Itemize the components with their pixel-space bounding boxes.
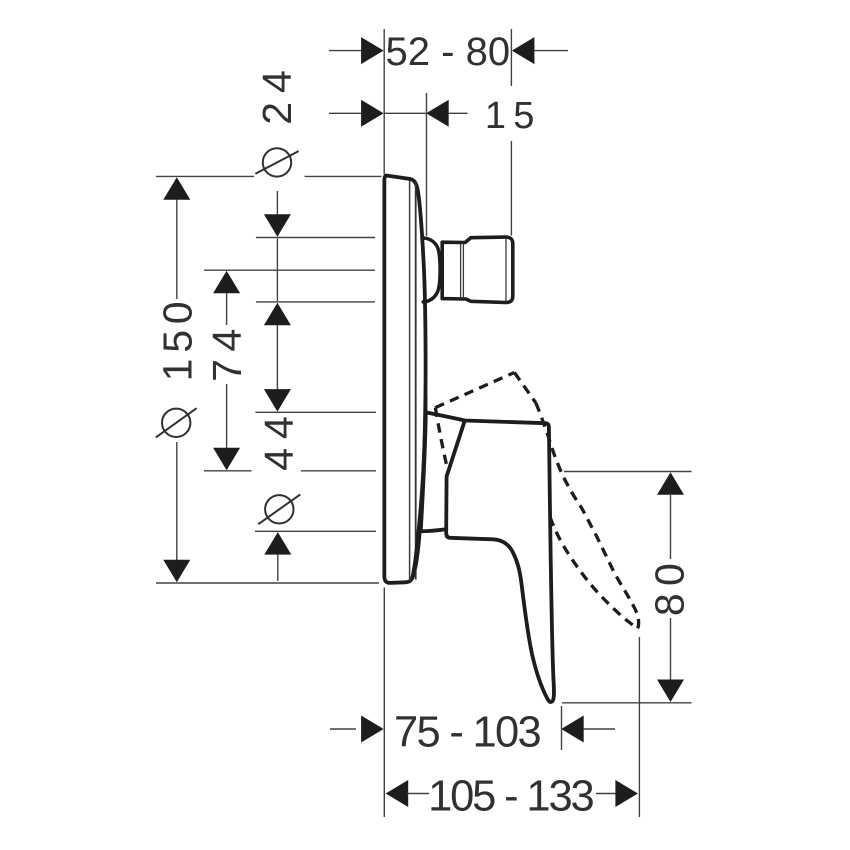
dim 15 line <box>384 112 426 114</box>
dim 52-80 arrow left <box>361 37 384 64</box>
wall plate outline <box>384 175 425 582</box>
dim 74 arrow up <box>213 271 240 294</box>
dim 75-103 arrow right <box>561 716 584 743</box>
dim 150 shaft upper <box>176 200 178 300</box>
dim 15 arrow left <box>361 100 384 127</box>
svg-text:5: 5 <box>513 95 534 137</box>
extension line wall face bottom <box>383 588 385 818</box>
dim 150 arrow up <box>163 177 190 200</box>
dim 105-133 arrow right <box>615 780 638 807</box>
dim 15 leader left <box>329 112 362 114</box>
dim 75-103 leader left <box>330 728 356 730</box>
extension line plate face <box>426 93 428 236</box>
spout end cap line <box>505 239 507 302</box>
dim 24 top tangent line <box>256 237 375 239</box>
svg-text:1: 1 <box>485 95 506 137</box>
dim 15 leader right <box>448 112 467 114</box>
plate inner edge line 2 <box>415 182 417 580</box>
svg-text:150: 150 <box>154 296 200 382</box>
dim 15 arrow right <box>426 100 449 127</box>
dim 44 bottom tangent line <box>255 530 376 532</box>
dim 80 shaft lower <box>670 618 672 680</box>
dim 24 arrow down <box>264 214 291 237</box>
dim 105-133 line right <box>596 793 616 795</box>
svg-text:75 - 103: 75 - 103 <box>394 709 541 757</box>
dim 24 arrow up <box>264 303 291 326</box>
extension line handle tip <box>561 706 563 750</box>
extension line spout end upper <box>510 29 512 86</box>
handle body <box>421 412 554 702</box>
dim 52-80 leader left <box>329 50 362 52</box>
spout flare <box>422 238 440 302</box>
dashed lever outer edge <box>536 403 639 630</box>
dim 150 top tangent line b <box>305 175 382 177</box>
dim 24 shaft through <box>276 239 278 302</box>
dim 44 shaft below <box>277 554 279 581</box>
spout joint line 1 <box>460 244 462 299</box>
dim 44 arrow up <box>264 532 291 555</box>
dim 150 arrow down <box>163 560 190 583</box>
extension line wall face top <box>383 29 385 174</box>
dim 24 bottom tangent line <box>256 301 375 303</box>
dim 74 shaft upper <box>226 293 228 325</box>
svg-text:52 - 80: 52 - 80 <box>386 30 511 74</box>
dashed lever inner edge <box>550 517 637 629</box>
dim 24 phi symbol <box>263 148 291 176</box>
plate inner edge line 1 <box>409 181 411 581</box>
svg-text:74: 74 <box>204 321 250 382</box>
dim 52-80 arrow right <box>512 37 535 64</box>
dim 44 top tangent line <box>255 411 376 413</box>
svg-text:105 - 133: 105 - 133 <box>428 772 593 820</box>
extension line dashed tip <box>638 637 640 817</box>
dim 150 bottom tangent line <box>156 582 379 584</box>
dim 75-103 leader right <box>583 728 615 730</box>
svg-text:44: 44 <box>256 407 302 470</box>
dim 44 arrow down <box>264 389 291 412</box>
dim 80 arrow down <box>657 680 684 703</box>
dim 80 shaft upper <box>670 495 672 559</box>
spout joint line 2 <box>462 243 464 298</box>
dim 74 arrow down <box>213 448 240 471</box>
dim 44 pivot line a <box>204 470 252 472</box>
dim 150 phi symbol <box>162 409 190 437</box>
dim 24 shaft above <box>276 191 278 236</box>
dim 75-103 arrow left <box>361 716 384 743</box>
dim 150 top tangent line a <box>156 175 254 177</box>
plate face over handle <box>413 395 426 577</box>
dashed handle top edge <box>435 373 514 408</box>
dim 80 top reference line <box>564 471 692 473</box>
dashed handle back edge <box>435 408 448 473</box>
dim 24 shaft below <box>276 325 278 390</box>
svg-text:24: 24 <box>254 61 300 125</box>
svg-text:80: 80 <box>647 556 693 616</box>
dashed handle end edge <box>514 373 535 403</box>
dim 74 shaft lower <box>226 384 228 448</box>
dim 105-133 arrow left <box>386 780 409 807</box>
dim 150 shaft lower <box>176 442 178 560</box>
dim 80 arrow up <box>657 472 684 495</box>
dim 44 pivot line b <box>301 470 376 472</box>
handle hub back edge <box>446 421 465 530</box>
dim 105-133 line left <box>407 793 429 795</box>
spout body <box>442 237 513 302</box>
dim 52-80 leader right <box>534 50 568 52</box>
dim 80 bottom reference line <box>562 702 692 704</box>
extension line spout end lower <box>510 141 512 236</box>
dim 44 phi symbol <box>265 495 293 523</box>
dim 74 center line <box>204 269 375 271</box>
